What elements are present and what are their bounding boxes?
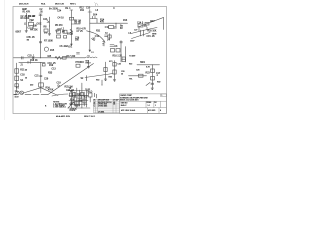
box R16a <box>111 49 115 53</box>
resistor zigzag on V4 <box>70 29 72 35</box>
svg-text:3. SEE TABLE A: 3. SEE TABLE A <box>53 106 66 109</box>
svg-text:OSC: OSC <box>37 24 42 26</box>
svg-text:C10: C10 <box>86 8 91 10</box>
svg-text:TO HTR: TO HTR <box>69 110 76 112</box>
K-cluster h mid3 <box>70 104 87 106</box>
jack J1 box <box>15 69 19 73</box>
svg-text:C27: C27 <box>134 29 137 31</box>
box ant2 <box>145 23 149 26</box>
svg-text:R7 100K: R7 100K <box>44 41 53 43</box>
svg-text:C25 .1: C25 .1 <box>28 56 35 58</box>
stub Ba <box>115 23 117 26</box>
svg-text:TO P2: TO P2 <box>85 89 90 91</box>
svg-text:20: 20 <box>25 78 27 80</box>
wire V4 <box>70 10 72 46</box>
title block <box>120 94 167 113</box>
svg-text:20: 20 <box>121 74 123 76</box>
wire branch <box>90 19 97 24</box>
wire V7 <box>151 65 153 88</box>
wire H1 <box>14 57 86 59</box>
ground <box>87 66 90 68</box>
P1 ticks <box>15 91 19 95</box>
switch S1 box <box>15 84 19 87</box>
svg-text:R15: R15 <box>50 50 55 52</box>
node dot <box>40 57 41 58</box>
K-cluster box4 <box>81 93 84 96</box>
svg-text:C21: C21 <box>35 76 40 78</box>
tick V5 <box>88 11 92 13</box>
node dot <box>40 87 41 88</box>
svg-text:6.3V: 6.3V <box>75 106 80 108</box>
tick on H1 x22 <box>22 57 24 60</box>
revision table <box>93 99 119 113</box>
svg-text:450: 450 <box>30 84 33 86</box>
svg-text:R27: R27 <box>84 97 89 99</box>
node dot <box>71 57 72 58</box>
wire H5 <box>25 93 48 95</box>
svg-text:R16 2.2K: R16 2.2K <box>113 56 123 58</box>
svg-text:46: 46 <box>113 102 115 104</box>
svg-text:R20 10K: R20 10K <box>148 31 157 33</box>
ground <box>25 31 28 33</box>
wire stub <box>140 30 142 36</box>
svg-text:FLD: FLD <box>88 92 93 94</box>
wire to border <box>138 18 164 30</box>
annotation mark <box>95 3 99 7</box>
capacitor on V7 <box>151 83 154 84</box>
wire H2 <box>90 22 128 24</box>
box phono <box>76 64 80 67</box>
svg-text:L6: L6 <box>88 55 90 57</box>
svg-text:RCA: RCA <box>41 3 46 6</box>
svg-text:C19: C19 <box>57 83 62 85</box>
svg-text:1:1: 1:1 <box>148 105 150 107</box>
svg-text:R31: R31 <box>96 31 101 33</box>
wire K-cluster v3 <box>81 88 83 108</box>
svg-text:1M: 1M <box>31 20 34 22</box>
svg-text:REV C SH 1: REV C SH 1 <box>84 116 96 118</box>
wire V3 <box>48 17 50 34</box>
box B2 <box>63 30 67 33</box>
comp on H1 x64 <box>63 57 67 60</box>
ticks x77 <box>77 53 80 54</box>
wire diagonal D2 <box>41 88 58 96</box>
svg-text:47K: 47K <box>100 22 105 24</box>
sheet no box <box>161 94 167 97</box>
svg-text:C4 10: C4 10 <box>58 18 65 20</box>
node dot <box>102 85 103 86</box>
wire wavy <box>131 28 157 34</box>
wire connector <box>52 94 68 96</box>
tick knot top <box>87 90 89 93</box>
wire H3 <box>137 64 160 66</box>
svg-text:R5 470: R5 470 <box>55 25 63 27</box>
capacitor box C32 <box>113 63 116 67</box>
svg-text:B: B <box>160 110 161 112</box>
svg-text:PHONO: PHONO <box>76 62 85 64</box>
svg-text:R28: R28 <box>70 99 75 101</box>
svg-text:C23: C23 <box>78 101 83 103</box>
svg-text:C12: C12 <box>95 36 100 38</box>
svg-text:150V: 150V <box>130 40 135 42</box>
svg-text:1M: 1M <box>27 39 30 41</box>
node arrow <box>89 50 91 52</box>
K-cluster box <box>89 93 93 97</box>
box on V4 <box>70 17 74 20</box>
box C22 <box>83 99 86 103</box>
svg-text:C18: C18 <box>20 75 25 77</box>
svg-text:1: 1 <box>155 105 156 107</box>
svg-text:MODEL 12-B CODE 4921: MODEL 12-B CODE 4921 <box>120 100 139 102</box>
node dot <box>76 94 77 95</box>
header microtext <box>19 3 77 6</box>
svg-text:6SK7: 6SK7 <box>16 32 22 34</box>
labels <box>15 7 161 112</box>
K-cluster stub <box>89 97 91 102</box>
K-cluster diag <box>68 103 73 108</box>
K-cluster box3 <box>75 102 78 106</box>
wire H6 <box>19 61 45 63</box>
notes block <box>53 102 67 109</box>
dark box right-mid <box>122 57 126 62</box>
capacitor C18 box <box>15 76 19 80</box>
stub ant <box>139 27 147 31</box>
resistor box R34 <box>104 68 107 72</box>
title block text <box>120 94 163 112</box>
connector P1 circle <box>16 91 19 94</box>
svg-text:4921-SCH: 4921-SCH <box>19 4 29 6</box>
wire V6 <box>120 41 122 63</box>
resistor R box <box>39 83 44 87</box>
svg-text:C24: C24 <box>57 11 62 13</box>
svg-text:6SQ7: 6SQ7 <box>67 34 74 36</box>
svg-text:R29: R29 <box>71 102 74 104</box>
svg-text:R18 1K: R18 1K <box>30 60 38 62</box>
wire diagonal left <box>22 88 41 94</box>
svg-text:C14 5: C14 5 <box>137 23 144 25</box>
ticks near V6 <box>110 45 114 47</box>
wire up from knot <box>81 83 83 88</box>
wire diagonal D1 <box>48 64 94 95</box>
wire stub <box>143 30 145 36</box>
svg-text:C11: C11 <box>105 27 110 29</box>
svg-text:R33: R33 <box>48 72 53 74</box>
svg-text:R32: R32 <box>157 81 160 83</box>
P1 dots <box>17 92 18 93</box>
svg-text:DT: DT <box>113 100 115 102</box>
tick V6 top <box>120 42 123 43</box>
filter chain wire <box>114 61 116 80</box>
resistor box R23a <box>151 69 155 73</box>
wire H4 <box>129 75 147 77</box>
tick V3 <box>47 21 49 23</box>
tick on H6 <box>28 61 30 63</box>
svg-text:R30: R30 <box>96 80 99 82</box>
wire V10 <box>16 63 18 91</box>
transformer T1 <box>29 22 34 25</box>
svg-text:SW1: SW1 <box>140 62 146 64</box>
box on V3 side <box>44 29 48 32</box>
box K2 <box>78 96 81 100</box>
inner mark <box>122 58 126 60</box>
svg-text:REV C: REV C <box>70 4 77 6</box>
revision table text <box>94 99 119 114</box>
connector P1b circle <box>20 91 23 94</box>
svg-text:REVISED PER CH: REVISED PER CH <box>98 102 112 104</box>
K-cluster extra v <box>73 92 75 106</box>
K-cluster extra v <box>83 92 85 106</box>
svg-text:RECT: RECT <box>86 63 92 65</box>
svg-text:48-A-4921 SCH: 48-A-4921 SCH <box>56 115 71 118</box>
box C16a <box>42 64 45 66</box>
svg-text:R1 47K: R1 47K <box>23 12 31 14</box>
svg-text:46: 46 <box>113 104 115 106</box>
svg-text:DESCRIPTION: DESCRIPTION <box>98 100 110 102</box>
ground <box>48 34 51 36</box>
node dot <box>89 23 90 24</box>
capacitor on V9 <box>40 76 42 77</box>
node arrow <box>71 44 73 46</box>
svg-text:5Y3: 5Y3 <box>109 61 112 63</box>
marks upper mid <box>58 29 61 30</box>
svg-text:B: B <box>94 104 95 106</box>
svg-text:MOD 12B: MOD 12B <box>55 4 64 6</box>
svg-text:8045-C: 8045-C <box>121 105 128 107</box>
svg-text:VOL: VOL <box>68 47 73 49</box>
svg-text:C7 25: C7 25 <box>77 31 84 33</box>
svg-text:R19: R19 <box>49 65 54 67</box>
footer microtext <box>56 115 96 118</box>
svg-text:C29: C29 <box>44 78 49 80</box>
stub V near relay <box>101 80 103 85</box>
svg-text:CH NO 4116: CH NO 4116 <box>98 104 107 106</box>
wire K-cluster v4 <box>85 90 87 107</box>
box K1 <box>73 93 76 97</box>
svg-text:SH: SH <box>154 102 156 104</box>
wire V1 <box>25 13 27 31</box>
tube V101 circle <box>44 47 48 51</box>
ground <box>151 88 154 90</box>
svg-text:5U4: 5U4 <box>93 14 98 16</box>
wire branch <box>71 23 80 25</box>
svg-text:TO ANT: TO ANT <box>129 55 136 58</box>
tick on H1 x33 <box>33 57 35 59</box>
capacitor on D1 <box>57 85 60 87</box>
wire V11 <box>103 41 105 47</box>
svg-text:6V: 6V <box>120 28 123 30</box>
marks upper mid2 <box>63 36 66 39</box>
svg-text:YEL: YEL <box>129 78 133 80</box>
svg-text:ANT: ANT <box>150 20 155 23</box>
svg-text:R23: R23 <box>146 73 151 75</box>
svg-text:C15 .05: C15 .05 <box>147 36 156 38</box>
svg-text:C9 .1: C9 .1 <box>65 8 71 10</box>
box T4 <box>138 24 143 27</box>
svg-text:10K: 10K <box>33 25 38 27</box>
node dot <box>86 80 87 81</box>
switch stroke <box>146 83 150 86</box>
paper edge <box>3 0 5 120</box>
svg-text:470K: 470K <box>48 90 54 92</box>
svg-text:C2A: C2A <box>43 18 48 21</box>
svg-text:40: 40 <box>25 70 27 72</box>
resistor zigzag on H1 <box>55 56 62 59</box>
tick T2 <box>105 35 108 36</box>
rectifier chain wire <box>105 62 107 79</box>
sheet border <box>13 7 167 114</box>
wire K-cluster v1 <box>70 90 72 108</box>
inductor L6 <box>85 56 97 59</box>
wire arc <box>87 31 106 43</box>
ticks left of rev table <box>95 93 97 98</box>
resistor box R23b <box>151 76 155 80</box>
vertical x109 <box>109 34 111 41</box>
stub V4 top <box>70 9 73 11</box>
svg-text:R13: R13 <box>123 20 128 22</box>
wire V9 <box>40 62 42 92</box>
node dot <box>116 23 117 24</box>
wire K-cluster h-bot <box>68 107 90 109</box>
svg-text:RADIO CORP: RADIO CORP <box>121 94 133 97</box>
K-cluster h mid <box>69 95 88 97</box>
node dot <box>49 26 50 27</box>
svg-text:C22: C22 <box>72 97 77 99</box>
svg-text:C28: C28 <box>136 69 139 71</box>
node dot <box>152 64 153 65</box>
svg-text:C1 .02: C1 .02 <box>29 16 36 18</box>
box C11 <box>109 26 114 29</box>
ground <box>113 80 116 82</box>
box B3 <box>57 35 61 38</box>
wire K-cluster v2 <box>76 88 78 108</box>
capacitor on V2 <box>39 42 41 43</box>
ground <box>104 79 107 81</box>
svg-text:R17 220: R17 220 <box>67 56 76 58</box>
K-cluster extra v <box>79 90 81 106</box>
K-cluster h mid2 <box>69 100 88 102</box>
svg-text:GRN: GRN <box>152 34 157 36</box>
wire diag <box>132 33 151 39</box>
box B1 <box>57 30 61 33</box>
switch box SW1 <box>139 74 144 77</box>
stub H5 left <box>14 93 17 95</box>
svg-text:270: 270 <box>44 33 47 35</box>
svg-text:AMP: AMP <box>22 8 27 11</box>
svg-text:R22: R22 <box>129 63 132 65</box>
svg-text:C13: C13 <box>52 68 57 70</box>
pin ticks V5 branch <box>93 16 96 18</box>
svg-text:R12: R12 <box>80 7 85 9</box>
wire V5 <box>89 10 91 52</box>
wire diagonal D1b <box>85 74 113 78</box>
wire V8 <box>88 61 90 67</box>
stub V86 <box>86 76 88 81</box>
stub V2 top <box>39 14 42 15</box>
box R16b <box>116 49 120 53</box>
label 12 <box>91 52 94 54</box>
wire K-cluster h-top <box>68 90 88 92</box>
svg-text:CH NO 4418: CH NO 4418 <box>98 106 107 108</box>
mark near C12 <box>92 39 95 41</box>
svg-text:C8 .05: C8 .05 <box>74 23 81 25</box>
capacitor box C33 <box>113 70 116 74</box>
wire V6b <box>124 47 126 63</box>
box x109 <box>108 35 111 38</box>
svg-text:CH 4981: CH 4981 <box>98 111 104 113</box>
wire V2 <box>40 14 42 58</box>
svg-text:C32: C32 <box>118 64 121 66</box>
K-cluster box2 <box>70 93 73 97</box>
svg-text:R35: R35 <box>109 77 112 79</box>
svg-text:R4 22K: R4 22K <box>30 30 38 32</box>
